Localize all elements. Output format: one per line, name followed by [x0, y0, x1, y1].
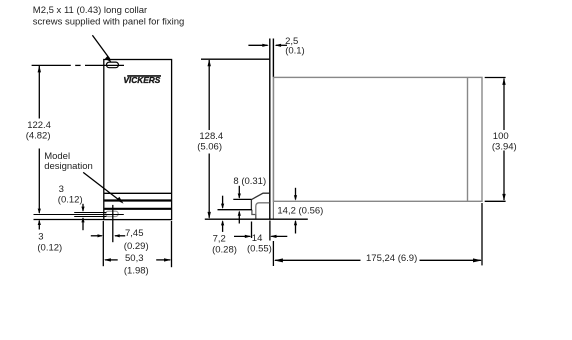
svg-text:7,45: 7,45: [125, 228, 144, 239]
svg-text:175,24 (6.9): 175,24 (6.9): [366, 253, 417, 264]
svg-text:(1.98): (1.98): [124, 266, 149, 277]
svg-text:(0.12): (0.12): [58, 194, 83, 205]
svg-text:100: 100: [493, 131, 509, 142]
svg-text:(3.94): (3.94): [492, 142, 517, 153]
svg-text:(0.28): (0.28): [212, 244, 237, 255]
svg-text:(5.06): (5.06): [197, 141, 222, 152]
svg-text:(0.29): (0.29): [124, 241, 149, 252]
svg-text:screws supplied with panel for: screws supplied with panel for fixing: [33, 16, 185, 27]
svg-text:50,3: 50,3: [125, 253, 144, 264]
svg-text:(0.1): (0.1): [285, 46, 305, 57]
svg-text:M2,5 x 11 (0.43) long collar: M2,5 x 11 (0.43) long collar: [33, 5, 147, 16]
svg-text:8 (0.31): 8 (0.31): [233, 176, 266, 187]
svg-text:3: 3: [38, 231, 43, 242]
svg-text:(4.82): (4.82): [26, 130, 51, 141]
svg-text:designation: designation: [44, 161, 93, 172]
svg-text:VICKERS: VICKERS: [123, 75, 160, 85]
svg-text:(0.55): (0.55): [247, 244, 272, 255]
svg-text:14: 14: [252, 233, 263, 244]
svg-text:7,2: 7,2: [213, 234, 226, 245]
svg-text:14,2 (0.56): 14,2 (0.56): [277, 205, 323, 216]
svg-text:(0.12): (0.12): [37, 242, 62, 253]
svg-text:3: 3: [59, 184, 64, 195]
